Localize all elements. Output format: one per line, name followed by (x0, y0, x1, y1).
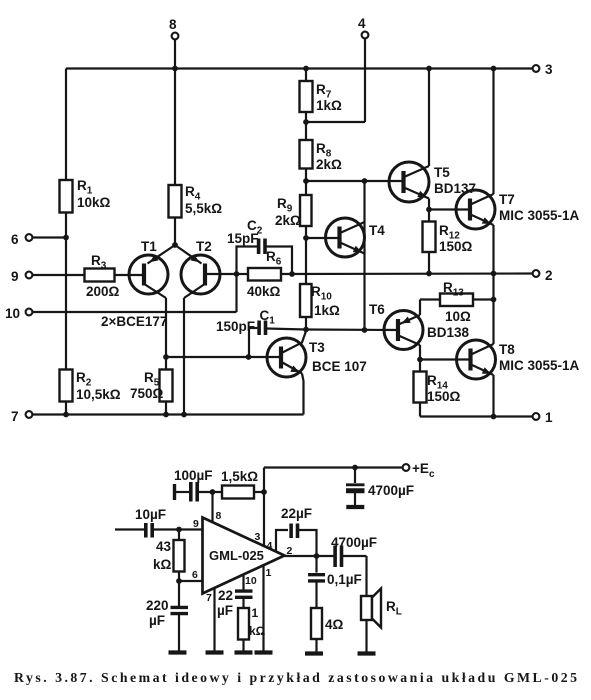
wire +Ec to pin 4 (263, 468, 265, 547)
junction T4 base (303, 235, 309, 241)
wire R8 to T5 base node (305, 169, 307, 182)
capacitor C2 (237, 239, 293, 275)
terminal pin 3 (533, 65, 540, 72)
svg-text:RL: RL (386, 599, 402, 618)
label R10 (311, 284, 332, 303)
junction T5 emitter / T7 base (426, 207, 432, 213)
wire T5 emitter to R12 (428, 199, 430, 222)
junction top rail / T7 collector (491, 66, 497, 72)
junction top rail / T5 collector (426, 66, 432, 72)
svg-text:T5: T5 (434, 165, 450, 180)
svg-text:1kΩ: 1kΩ (316, 98, 342, 113)
label R2 value (76, 387, 121, 402)
wire output rail to T8 collector (492, 274, 494, 345)
svg-text:9: 9 (11, 269, 19, 284)
node T2 base / feedback (234, 271, 240, 277)
svg-text:T3: T3 (309, 340, 325, 355)
terminal pin 1 (533, 413, 540, 420)
label T7 type (499, 208, 580, 223)
svg-text:750Ω: 750Ω (130, 386, 164, 401)
svg-text:+E: +E (412, 461, 429, 476)
svg-text:kΩ: kΩ (153, 557, 172, 572)
label R14 (427, 373, 448, 392)
label R13 (443, 280, 464, 299)
svg-text:1kΩ: 1kΩ (314, 303, 340, 318)
svg-text:T2: T2 (196, 239, 212, 254)
resistor R5 (160, 357, 173, 415)
label R8 value (316, 157, 342, 172)
label 4R value (325, 617, 344, 632)
label +Ec (412, 461, 435, 480)
wire node to T3 base (166, 356, 281, 358)
wire T6 emitter to R13 (419, 300, 421, 316)
wire R7 to R8 (305, 112, 307, 140)
label pin 1 (545, 410, 553, 425)
terminal pin 10 (26, 274, 237, 315)
label T4 (369, 223, 385, 238)
junction T7 emitter / output rail (491, 271, 497, 277)
label 2xBCE177 (101, 314, 167, 329)
svg-text:T8: T8 (499, 342, 515, 357)
junction R12 / output rail (426, 271, 432, 277)
junction R5 / bottom rail (163, 412, 169, 418)
label C2 (247, 218, 263, 237)
label 1k value (249, 606, 266, 638)
svg-text:9: 9 (193, 518, 199, 530)
svg-text:150pF: 150pF (216, 319, 255, 334)
resistor 4R (311, 608, 322, 652)
wire T1 collector (165, 298, 167, 357)
terminal pin 9 (26, 272, 85, 279)
wire T8 emitter to bottom rail (492, 375, 494, 417)
capacitor 100uF (175, 482, 223, 502)
node common emitters T1 T2 (172, 242, 178, 248)
junction T4 bottom / T6 base rail (362, 327, 368, 333)
wire T8 base (420, 358, 470, 360)
label 22uF pin10 value (217, 588, 233, 618)
label 4700uF series (331, 535, 377, 550)
label C1 value (216, 319, 255, 334)
label R12 (439, 223, 460, 242)
svg-text:15pF: 15pF (227, 231, 259, 246)
svg-text:BCE 107: BCE 107 (312, 359, 367, 374)
junction 1.5k / pin4 wire (261, 489, 267, 495)
svg-text:100µF: 100µF (174, 468, 213, 483)
svg-text:T1: T1 (141, 239, 157, 254)
wire output (285, 555, 335, 557)
svg-text:3: 3 (255, 531, 261, 543)
ground pin 1 (255, 650, 273, 654)
label R4 value (185, 201, 222, 216)
node T1 collector / R5 (163, 354, 169, 360)
resistor R14 (414, 360, 427, 417)
label op-amp pin 6 (192, 569, 198, 581)
junction T3 collector / C1 / T6 base (303, 327, 309, 333)
junction R13 / T8 collector rail (491, 297, 497, 303)
junction top rail / R7 (303, 66, 309, 72)
label 100uF (174, 468, 213, 483)
wire bottom-right rail (420, 415, 536, 417)
wire output rail to pin 2 (281, 272, 536, 275)
terminal pin 4 (306, 32, 368, 122)
label T1 (141, 239, 157, 254)
label pin 2 (545, 268, 553, 283)
svg-text:R10: R10 (311, 284, 332, 303)
label R13 value (445, 309, 471, 324)
wire top supply rail (pins 8-3) (66, 67, 536, 69)
label R8 (316, 141, 332, 160)
svg-text:4Ω: 4Ω (325, 617, 344, 632)
junction 100uF / pin 8 riser (210, 489, 216, 495)
transistor T2 (175, 245, 237, 298)
svg-text:GML-025: GML-025 (209, 548, 264, 563)
svg-text:10kΩ: 10kΩ (77, 195, 111, 210)
label R3 value (86, 284, 120, 299)
caption Rys. 3.87 (14, 670, 577, 685)
label op-amp pin 10 (245, 575, 257, 587)
wire bottom-left rail (33, 413, 304, 415)
junction bottom rail / left rail (63, 412, 69, 418)
ground 220uF (169, 650, 187, 654)
capacitor 0,1uF (308, 556, 325, 608)
wire R10 to T3 collector node (305, 317, 307, 330)
svg-text:4: 4 (358, 16, 366, 31)
svg-text:BD137: BD137 (434, 181, 476, 196)
label 22uF bootstrap (281, 506, 312, 521)
label pin 10 (5, 306, 20, 321)
junction input / 43k (176, 527, 182, 533)
op-amp U1 GML-025 (203, 518, 285, 594)
label 220uF value (146, 598, 169, 628)
svg-text:T6: T6 (369, 302, 385, 317)
svg-text:MIC 3055-1A: MIC 3055-1A (499, 358, 580, 373)
capacitor 10uF (146, 523, 203, 538)
svg-text:c: c (429, 469, 435, 480)
label T3 type (312, 359, 367, 374)
label R14 value (427, 389, 461, 404)
svg-text:3: 3 (545, 62, 553, 77)
svg-text:2×BCE177: 2×BCE177 (101, 314, 167, 329)
label R1 value (77, 195, 111, 210)
terminal pin 7 (26, 411, 33, 418)
wire T7 collector (492, 69, 494, 195)
svg-text:BD138: BD138 (427, 325, 470, 340)
ground 1k (235, 650, 253, 654)
svg-text:10,5kΩ: 10,5kΩ (76, 387, 121, 402)
transistor T4 (306, 218, 365, 257)
svg-text:6: 6 (192, 569, 198, 581)
wire pin 8 riser (211, 492, 213, 522)
junction +Ec rail / bypass cap (352, 465, 358, 471)
label R6 (266, 249, 282, 268)
label pin 9 (11, 269, 19, 284)
wire input (115, 528, 144, 530)
svg-text:1: 1 (545, 410, 553, 425)
label R10 value (314, 303, 340, 318)
terminal pin 8 (172, 33, 179, 69)
label C1 (260, 308, 276, 327)
terminal pin 6 (26, 234, 66, 241)
svg-text:R6: R6 (266, 249, 282, 268)
junction T2 collector / bottom rail (181, 412, 187, 418)
resistor R8 (300, 140, 313, 169)
label R2 (76, 370, 92, 389)
resistor R2 (60, 370, 73, 402)
wire T4 collector-emitter rail (363, 181, 365, 330)
label T2 (196, 239, 212, 254)
svg-text:10: 10 (5, 306, 20, 321)
resistor R1 (60, 180, 73, 213)
wire T6 base rail (306, 328, 398, 331)
wire T2 collector (183, 298, 185, 415)
label T5 (434, 165, 450, 180)
wire +Ec rail (264, 466, 403, 468)
label T6 type (427, 325, 470, 340)
resistor R4 (169, 185, 182, 218)
terminal +Ec (403, 464, 410, 471)
svg-text:150Ω: 150Ω (439, 239, 473, 254)
svg-text:200Ω: 200Ω (86, 284, 120, 299)
ground speaker (358, 651, 376, 655)
label R6 value (247, 284, 281, 299)
svg-text:10: 10 (245, 575, 257, 587)
junction T4 top / T5 base rail (362, 178, 368, 184)
label pin 6 (11, 232, 19, 247)
svg-text:Rys. 3.87. Schemat ideowy i pr: Rys. 3.87. Schemat ideowy i przykład zas… (14, 670, 577, 685)
wire pin 1 (262, 566, 264, 652)
label T8 type (499, 358, 580, 373)
label R7 value (316, 98, 342, 113)
resistor 1k (238, 608, 249, 651)
label op-amp pin 3 (255, 531, 261, 543)
label R4 (185, 184, 201, 203)
svg-text:8: 8 (169, 17, 177, 32)
svg-text:8: 8 (216, 510, 222, 522)
svg-text:T7: T7 (499, 192, 515, 207)
capacitor 22uF pin10 (235, 591, 253, 608)
junction output / bootstrap (314, 553, 320, 559)
capacitor 4700uF bypass (346, 468, 365, 506)
svg-text:40kΩ: 40kΩ (247, 284, 281, 299)
capacitor 4700uF series (335, 546, 366, 568)
label op-amp pin 4 (267, 540, 273, 552)
transistor T7 (456, 190, 495, 229)
label pin 3 (545, 62, 553, 77)
wire T5 collector (428, 69, 430, 167)
ground Zobel (305, 651, 323, 655)
label R1 (77, 178, 93, 197)
capacitor 220uF (171, 581, 189, 651)
capacitor C1 (249, 321, 306, 358)
label R9 (277, 196, 293, 215)
svg-text:2kΩ: 2kΩ (275, 213, 301, 228)
svg-text:C1: C1 (260, 308, 276, 327)
resistor R7 (300, 81, 313, 112)
junction T8 emitter / bottom-right rail (491, 414, 497, 420)
wire R9 to R10 (T4 base node) (305, 226, 307, 284)
transistor T6 (384, 311, 423, 350)
svg-text:4: 4 (267, 540, 273, 552)
svg-text:6: 6 (11, 232, 19, 247)
junction top rail / pin 8 (172, 66, 178, 72)
junction T5 base node (303, 178, 309, 184)
label R9 value (275, 213, 301, 228)
junction R6 right / C2 (289, 271, 295, 277)
label T6 (369, 302, 385, 317)
junction left rail / pin 6 (63, 235, 69, 241)
wire pin 6 (179, 580, 203, 582)
resistor 1,5k (222, 486, 264, 499)
wire T7 base (429, 208, 470, 210)
svg-text:1,5kΩ: 1,5kΩ (221, 469, 258, 484)
label 0,1uF value (327, 572, 362, 587)
label pin 7 (11, 409, 19, 424)
svg-text:4700µF: 4700µF (331, 535, 377, 550)
label R5 value (130, 386, 164, 401)
transistor T1 (115, 245, 176, 298)
wire pin 7 (213, 588, 215, 652)
label T5 type (434, 181, 476, 196)
svg-text:T4: T4 (369, 223, 385, 238)
label 4700uF bypass (368, 483, 414, 498)
label op-amp pin 2 (287, 545, 293, 557)
label T3 (309, 340, 325, 355)
svg-text:22µF: 22µF (281, 506, 312, 521)
label 43k value (153, 539, 172, 572)
label 1,5k value (221, 469, 258, 484)
svg-text:R1: R1 (77, 178, 93, 197)
label R12 value (439, 239, 473, 254)
label T7 (499, 192, 515, 207)
svg-text:4700µF: 4700µF (368, 483, 414, 498)
svg-text:220: 220 (146, 598, 169, 613)
ground bypass cap (346, 505, 364, 509)
svg-text:7: 7 (206, 592, 212, 604)
svg-text:R4: R4 (185, 184, 201, 203)
svg-text:7: 7 (11, 409, 19, 424)
svg-text:1: 1 (252, 606, 259, 620)
label pin 4 (358, 16, 366, 31)
resistor R9 (300, 181, 312, 226)
label RL (386, 599, 402, 618)
label 10uF (135, 507, 166, 522)
wire feedback node to R6 (237, 273, 249, 275)
resistor R13 (420, 294, 494, 307)
svg-text:0,1µF: 0,1µF (327, 572, 362, 587)
transistor T5 (389, 162, 429, 202)
wire T5 base rail (306, 180, 403, 182)
label T8 (499, 342, 515, 357)
svg-text:2kΩ: 2kΩ (316, 157, 342, 172)
label op-amp pin 8 (216, 510, 222, 522)
junction C1 / T3 base (246, 354, 252, 360)
resistor 43k (174, 530, 185, 582)
wire pin8 branch to R4 (174, 69, 176, 186)
terminal pin 2 (533, 270, 540, 277)
svg-text:150Ω: 150Ω (427, 389, 461, 404)
resistor R12 (423, 222, 436, 253)
svg-text:2: 2 (545, 268, 553, 283)
svg-text:R9: R9 (277, 196, 293, 215)
resistor R6 (248, 268, 281, 281)
junction pin4 wire / R7-R8 (303, 119, 309, 125)
svg-text:10µF: 10µF (135, 507, 166, 522)
svg-text:10Ω: 10Ω (445, 309, 471, 324)
label op-amp pin 9 (193, 518, 199, 530)
wire R4 to emitter node (174, 218, 176, 246)
wire rail to R7 (305, 69, 307, 82)
wire T6 collector to T8 base node (419, 345, 421, 360)
svg-text:R2: R2 (76, 370, 92, 389)
resistor R10 (300, 284, 312, 317)
junction 43k / pin 6 (176, 578, 182, 584)
label R3 (91, 253, 107, 272)
label C2 value (227, 231, 259, 246)
svg-text:MIC 3055-1A: MIC 3055-1A (499, 208, 580, 223)
ground pin 7 (206, 650, 224, 654)
wire pin 10 stub (242, 575, 244, 591)
svg-text:µF: µF (149, 613, 165, 628)
wire T7 emitter to output rail (492, 225, 494, 274)
svg-text:5,5kΩ: 5,5kΩ (185, 201, 222, 216)
svg-text:µF: µF (217, 603, 233, 618)
wire R12 to output rail (428, 252, 430, 274)
speaker RL (361, 556, 381, 652)
label R7 (316, 82, 332, 101)
svg-text:1: 1 (266, 567, 272, 579)
svg-text:22: 22 (218, 588, 233, 603)
label op-amp pin 7 (206, 592, 212, 604)
label op-amp pin 1 (266, 567, 272, 579)
capacitor 22uF bootstrap (276, 524, 317, 557)
wire left rail (R1/R2 branch) (65, 69, 67, 415)
transistor T3 (267, 331, 306, 415)
label R5 (144, 370, 160, 389)
label pin 8 (169, 17, 177, 32)
junction T6 collector / T8 base / R14 (417, 357, 423, 363)
transistor T8 (457, 340, 496, 379)
resistor R3 (85, 269, 115, 282)
svg-text:43: 43 (156, 539, 172, 554)
